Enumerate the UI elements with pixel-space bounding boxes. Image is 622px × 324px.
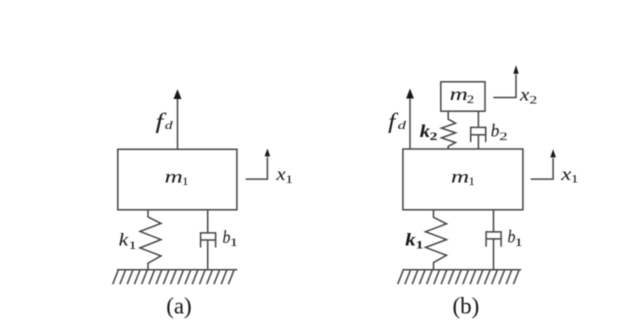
spring k2 (b) (442, 111, 456, 149)
label f_d (a) (155, 109, 173, 134)
svg-text:(a): (a) (166, 293, 192, 318)
label x1 (a) (275, 164, 293, 186)
svg-text:d: d (165, 118, 174, 132)
label b2 (b) (491, 120, 508, 143)
svg-text:1: 1 (571, 174, 579, 186)
spring k1 (a) (140, 210, 161, 270)
svg-text:1: 1 (468, 176, 475, 188)
label b1 (a) (223, 227, 239, 249)
label m1 (a) (165, 166, 189, 187)
displacement arrow x2 (b) (493, 65, 518, 97)
label k1 (a) (119, 229, 138, 252)
svg-text:1: 1 (128, 240, 137, 252)
force arrow f_d (b) (406, 89, 414, 150)
svg-text:1: 1 (230, 237, 239, 249)
label m1 (b) (451, 166, 475, 187)
mass m2 (b) (441, 82, 485, 111)
displacement arrow x1 (b) (531, 149, 556, 179)
svg-text:1: 1 (514, 237, 523, 249)
damper b1 (b) (486, 210, 501, 270)
label m2 (b) (450, 84, 475, 106)
label k2 (b) (420, 121, 438, 143)
svg-text:1: 1 (285, 174, 293, 186)
label b1 (b) (507, 227, 523, 249)
damper b1 (a) (201, 210, 216, 270)
svg-text:m: m (450, 84, 468, 104)
label k1 (b) (405, 230, 423, 252)
svg-text:x: x (275, 164, 285, 184)
svg-text:2: 2 (467, 94, 475, 106)
label f_d (b) (388, 108, 407, 133)
svg-text:2: 2 (430, 131, 438, 143)
svg-text:k: k (405, 230, 415, 250)
force arrow f_d (a) (174, 89, 182, 149)
svg-text:x: x (560, 164, 571, 184)
displacement arrow x1 (a) (246, 149, 271, 180)
ground (a) (113, 270, 238, 284)
svg-text:d: d (398, 118, 408, 132)
svg-text:1: 1 (416, 240, 424, 252)
svg-text:(b): (b) (453, 293, 480, 318)
label x1 (b) (560, 164, 579, 186)
svg-text:m: m (451, 166, 469, 186)
svg-text:1: 1 (182, 176, 189, 188)
mass m1 (b) (403, 149, 523, 210)
label x2 (b) (519, 84, 538, 106)
ground (b) (398, 270, 522, 284)
spring k1 (b) (426, 210, 447, 270)
svg-text:x: x (519, 84, 529, 104)
svg-text:2: 2 (529, 95, 537, 107)
svg-text:2: 2 (499, 131, 508, 143)
damper b2 (b) (471, 111, 486, 149)
svg-text:b: b (491, 120, 500, 140)
svg-text:m: m (165, 166, 183, 186)
mass m1 (a) (118, 149, 237, 210)
svg-text:k: k (420, 121, 430, 141)
